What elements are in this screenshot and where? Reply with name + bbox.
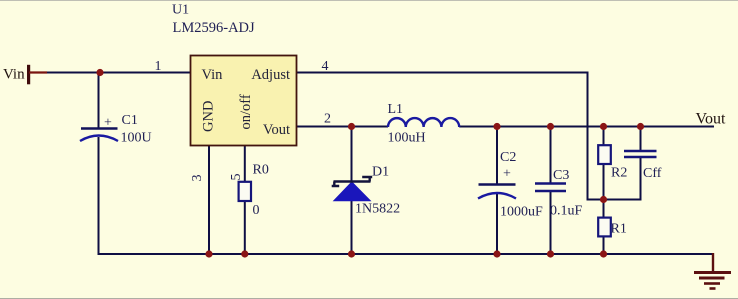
svg-text:0.1uF: 0.1uF <box>550 204 583 219</box>
svg-text:2: 2 <box>324 112 331 127</box>
svg-text:Vout: Vout <box>696 111 726 128</box>
svg-text:Vout: Vout <box>263 122 290 138</box>
svg-text:1000uF: 1000uF <box>500 205 543 220</box>
svg-text:C2: C2 <box>500 150 516 165</box>
svg-text:L1: L1 <box>388 102 404 117</box>
svg-text:1: 1 <box>155 59 162 74</box>
svg-text:C1: C1 <box>122 113 138 128</box>
svg-text:LM2596-ADJ: LM2596-ADJ <box>173 20 256 36</box>
svg-text:C3: C3 <box>553 168 569 183</box>
svg-text:GND: GND <box>201 101 217 132</box>
svg-text:Adjust: Adjust <box>251 67 290 83</box>
svg-text:D1: D1 <box>372 165 389 180</box>
svg-text:100U: 100U <box>121 131 152 146</box>
svg-text:1N5822: 1N5822 <box>355 202 400 217</box>
svg-text:0: 0 <box>253 203 260 218</box>
svg-text:on/off: on/off <box>238 94 254 129</box>
svg-text:R0: R0 <box>253 163 269 178</box>
svg-text:R1: R1 <box>611 222 627 237</box>
svg-text:5: 5 <box>229 174 244 181</box>
svg-text:Vin: Vin <box>202 67 224 83</box>
svg-text:100uH: 100uH <box>388 131 426 146</box>
svg-text:R2: R2 <box>611 166 627 181</box>
svg-text:3: 3 <box>190 175 205 182</box>
svg-text:Cff: Cff <box>643 166 662 181</box>
svg-text:Vin: Vin <box>3 67 25 83</box>
svg-text:U1: U1 <box>172 3 189 18</box>
svg-text:4: 4 <box>322 59 329 74</box>
svg-text:+: + <box>503 167 511 182</box>
svg-text:+: + <box>104 116 112 131</box>
